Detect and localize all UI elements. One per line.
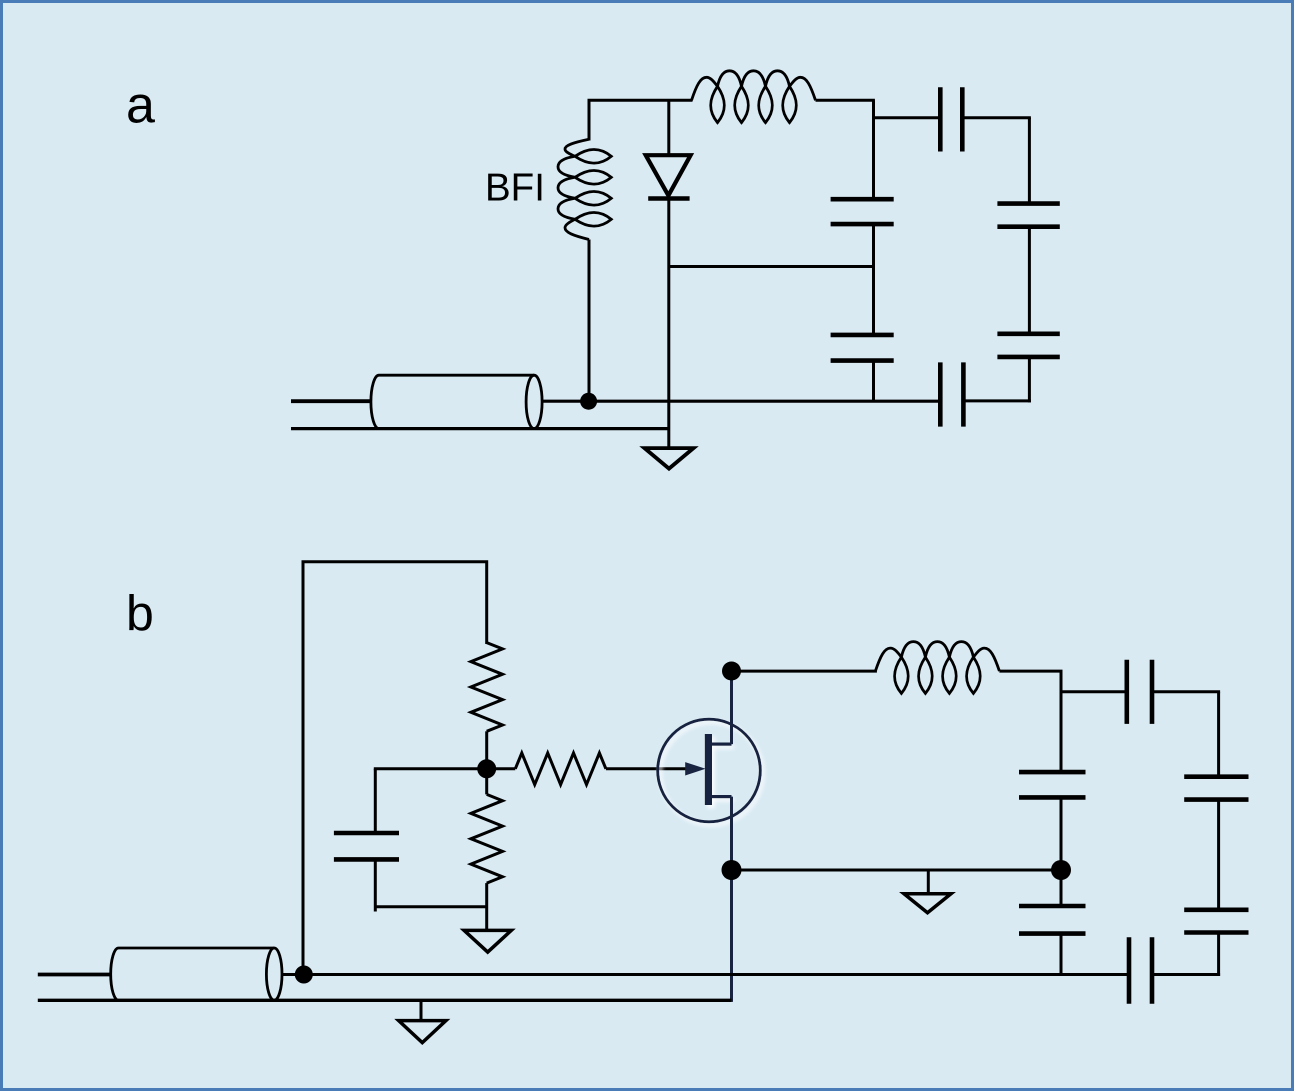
node mid-stack junction dot (1051, 860, 1071, 880)
wire top coupling branch left (circuit a) (874, 116, 941, 119)
wire between C11 and C12 (1217, 800, 1220, 910)
ground symbol coax shield (circuit b) (420, 1000, 423, 1020)
wire C9 to bottom rail (1060, 934, 1063, 975)
wire top-left corner to top rail of circuit a (589, 100, 693, 140)
resistor R2 (lower divider, circuit b) (471, 794, 503, 883)
wire mid tap from diode cathode to capacitor stack (669, 265, 874, 268)
capacitor C11 (upper right stack, circuit b) (1184, 774, 1248, 779)
wire top coupling branch right (1152, 690, 1220, 693)
wire between C4 and C5 (1028, 227, 1031, 334)
resistor R3 (gate series, circuit b) (515, 753, 606, 785)
capacitor C12 (lower right stack, circuit b) (1184, 907, 1248, 912)
diode D1 (open triangle + cathode bar) (646, 155, 691, 195)
wire top coupling branch right (962, 116, 1031, 119)
gate arrowhead of Q1 (686, 763, 704, 775)
wire inductor L2 to mid capacitor stack (999, 671, 1061, 772)
capacitor C4 (upper right of ladder, circuit a) (997, 201, 1059, 206)
capacitor C3 (series top coupling, circuit a) (938, 87, 943, 151)
svg-text:a: a (126, 77, 155, 135)
wire Q1 drain lead up to drain node (730, 671, 733, 744)
wire upper-left stub into coax a (291, 399, 371, 403)
capacitor C6 (series bottom coupling, circuit a) (938, 362, 943, 426)
coax cable input (circuit b) (111, 948, 275, 1000)
wire divider bottom rail to bypass capacitor (375, 905, 488, 908)
capacitor C13 (series output coupling, circuit b) (1127, 937, 1132, 1004)
wire upper-left stub into coax b (38, 973, 111, 977)
ground symbol source row (circuit b) (927, 870, 930, 894)
capacitor C10 (series top coupling, circuit b) (1125, 660, 1130, 724)
inductor L1 (horizontal coil, circuit a) (692, 71, 816, 123)
wire top coupling branch left (circuit b) (1061, 690, 1127, 693)
wire right capacitor-stack vertical top (circuit a) (1028, 118, 1031, 204)
node drain junction dot (722, 662, 741, 681)
wire BFI bottom to input node (588, 240, 591, 402)
wire R1 to gate node (485, 731, 488, 770)
wire right stack vertical top (circuit b) (1217, 692, 1220, 777)
ground symbol divider (circuit b) (464, 930, 511, 952)
wire C8 to source-row node (1060, 797, 1063, 870)
coax cable input (circuit a) (371, 375, 534, 428)
wire drain node to output inductor (732, 670, 877, 673)
wire coax b centre conductor / bottom rail (circuit b) (282, 973, 1129, 976)
svg-text:BFI: BFI (485, 167, 545, 210)
node source junction dot (722, 860, 742, 880)
wire bypass capacitor bottom lead (374, 859, 377, 911)
capacitor C5 (lower right of ladder, circuit a) (997, 331, 1059, 336)
wire bottom coupling branch right (circuit b) (1152, 973, 1220, 976)
wire left capacitor-stack vertical top (circuit a) (872, 100, 875, 199)
resistor R1 (upper divider, circuit b) (471, 643, 503, 732)
wire top rail right segment to L/C network (816, 99, 875, 102)
wire R2 bottom to divider ground (485, 883, 488, 930)
inductor L2 (horizontal coil, circuit b) (875, 642, 999, 694)
wire bypass capacitor top lead (374, 769, 377, 833)
wire coax shield rail (circuit a) (291, 427, 669, 430)
wire gate node to R2 (485, 768, 488, 794)
wire drain supply feed (tall left loop, circuit b) (303, 562, 487, 975)
svg-text:b: b (126, 586, 154, 642)
wire coax centre conductor / bottom rail of circuit a (542, 400, 940, 403)
capacitor C9 (lower mid stack, circuit b) (1019, 904, 1086, 909)
wire gate row to bypass capacitor (374, 767, 487, 770)
ground symbol (circuit a) (645, 448, 694, 469)
wire C2 to bottom rail (872, 361, 875, 402)
node coax output junction dot (circuit b) (295, 966, 313, 984)
capacitor C8 (upper mid stack, circuit b) (1019, 770, 1086, 775)
wire C5 to bottom coupling branch (1028, 357, 1031, 403)
capacitor C7 bypass (circuit b) (334, 831, 399, 836)
wire bottom coupling branch right (963, 399, 1031, 402)
transistor Q1 JFET (circle + gate bar + contacts) (658, 719, 761, 822)
wire C12 to bottom coupling branch (1217, 933, 1220, 976)
wire source row (source to mid stack) (732, 869, 1062, 872)
wire between C1 and C2 (872, 224, 875, 335)
wire diode cathode down to ground (circuit a) (667, 199, 670, 449)
node gate divider junction dot (477, 759, 496, 778)
inductor BFI choke (vertical coil) (558, 139, 611, 239)
wire Q1 source lead down to lower rail (730, 797, 733, 1002)
diode D1 anode wire (667, 100, 670, 155)
wire R3 to gate arrow (606, 767, 699, 770)
capacitor C1 (upper left of ladder, circuit a) (831, 197, 894, 202)
capacitor C2 (lower left of ladder, circuit a) (831, 333, 894, 338)
wire coax b shield rail (38, 999, 732, 1002)
node input junction dot (circuit a) (580, 393, 597, 410)
wire node to C9 (1060, 870, 1063, 906)
